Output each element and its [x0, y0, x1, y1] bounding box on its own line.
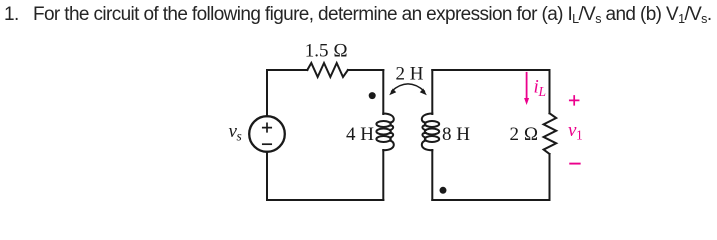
- mutual inductance arrow arc 2H: [392, 84, 425, 91]
- svg-text:s: s: [237, 129, 242, 144]
- wire: left loop right branch bottom stub: [382, 150, 384, 200]
- voltage source VS circle: [249, 116, 285, 152]
- wire: right loop top: [432, 69, 549, 71]
- wire: left loop top-right segment: [348, 69, 383, 71]
- resistor R 2ohm zigzag: [544, 113, 557, 154]
- wire: right loop left branch top stub: [431, 70, 433, 114]
- svg-text:2 H: 2 H: [396, 64, 424, 85]
- svg-text:1: 1: [576, 128, 583, 143]
- wire: left loop bottom: [267, 199, 383, 201]
- label vs: [229, 41, 539, 145]
- current arrow iL: [526, 73, 528, 99]
- minus sign of v1: [570, 163, 580, 165]
- label iL: [534, 77, 583, 143]
- wire: right loop right branch bottom stub: [549, 154, 551, 200]
- wire: right loop bottom: [432, 199, 549, 201]
- wire: right loop right branch top stub: [549, 70, 551, 113]
- polarity dot for L1: [369, 92, 376, 99]
- svg-text:1.5 Ω: 1.5 Ω: [305, 41, 348, 62]
- wire: left loop left branch top stub: [266, 70, 268, 116]
- wire: right loop left branch bottom stub: [431, 150, 433, 200]
- svg-text:8 H: 8 H: [442, 124, 470, 145]
- svg-text:2 Ω: 2 Ω: [510, 124, 539, 145]
- svg-text:4 H: 4 H: [346, 124, 374, 145]
- wire: left loop left branch bottom stub: [266, 152, 268, 200]
- svg-text:L: L: [538, 84, 547, 99]
- wire: left loop top-left segment: [267, 69, 307, 71]
- plus sign of v1: [570, 96, 580, 164]
- minus sign inside source: [263, 143, 271, 145]
- mutual arrow head left: [369, 89, 447, 194]
- problem statement text: [0, 4, 717, 26]
- resistor R 1.5ohm zigzag: [307, 63, 348, 77]
- inductor L1 4H coil: [376, 114, 393, 151]
- polarity dot for L2: [440, 187, 447, 194]
- arrowhead of current arrow iL: [524, 98, 529, 105]
- inductor L2 8H coil: [422, 114, 439, 151]
- problem number: [4, 4, 19, 26]
- mutual arrow head right: [420, 89, 427, 96]
- plus sign inside source: [263, 123, 271, 144]
- wire: left loop right branch top stub: [382, 70, 384, 114]
